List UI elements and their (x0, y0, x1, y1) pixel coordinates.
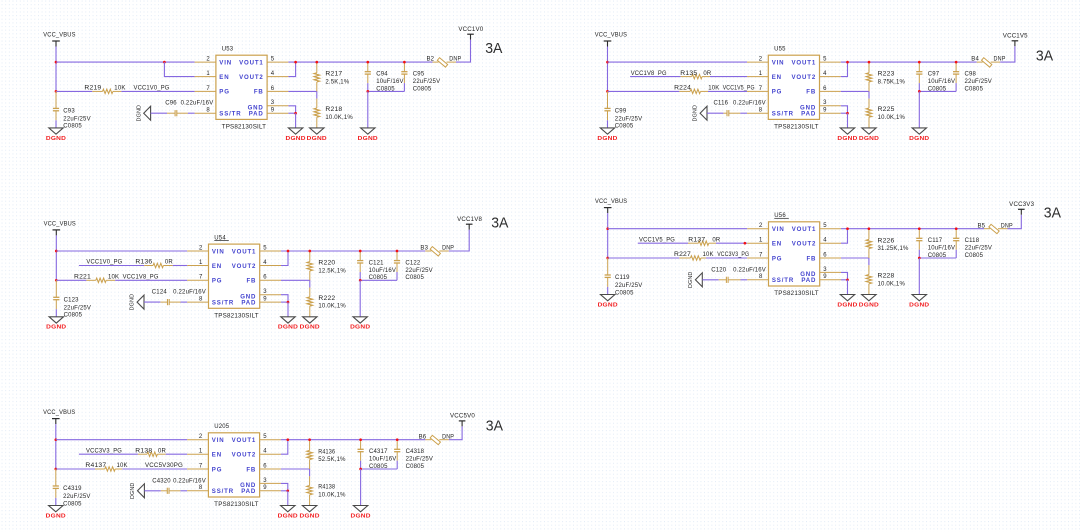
ground DGND input (49, 506, 63, 512)
wire output to flag (456, 40, 471, 63)
svg-text:C0805: C0805 (615, 290, 634, 296)
svg-text:22uF/25V: 22uF/25V (615, 116, 642, 122)
svg-text:VOUT2: VOUT2 (232, 452, 257, 459)
svg-text:10uF/16V: 10uF/16V (928, 246, 955, 252)
junction VBUS/PG (55, 279, 58, 282)
svg-text:C0805: C0805 (615, 124, 634, 130)
svg-text:7: 7 (759, 86, 763, 92)
wire cap to ground (55, 120, 57, 128)
junction VBUS/VIN (54, 438, 57, 441)
svg-text:0.22uF/16V: 0.22uF/16V (173, 290, 206, 296)
svg-text:0.22uF/16V: 0.22uF/16V (181, 101, 214, 107)
svg-text:FB: FB (246, 278, 256, 285)
svg-text:8.75K,1%: 8.75K,1% (878, 79, 906, 85)
svg-text:R223: R223 (878, 72, 896, 78)
svg-text:22uF/25V: 22uF/25V (405, 268, 432, 274)
svg-text:2.5K,1%: 2.5K,1% (325, 79, 349, 85)
svg-text:U205: U205 (214, 424, 230, 430)
regulator IC U205 TPS82130SILT (187, 424, 281, 508)
svg-text:R4138: R4138 (318, 485, 335, 491)
capacitor C94 10uF/16V (365, 62, 404, 92)
svg-text:2: 2 (199, 434, 203, 440)
wire GND/PAD pins (288, 106, 295, 113)
power flag VCC_VBUS (bottom-left) (43, 410, 75, 424)
svg-text:EN: EN (212, 452, 222, 459)
svg-text:C4318: C4318 (406, 449, 425, 455)
svg-text:VCC5V0: VCC5V0 (450, 414, 475, 420)
regulator IC U56 TPS82130SILT (747, 213, 841, 297)
svg-text:DGND: DGND (837, 302, 857, 308)
svg-text:C4319: C4319 (63, 486, 82, 492)
ground DGND soft-start (side) (130, 483, 144, 500)
wire PG from VBUS (608, 257, 680, 259)
svg-text:2: 2 (759, 223, 763, 229)
svg-text:10uF/16V: 10uF/16V (369, 457, 396, 463)
capacitor C98 22uF/25V (953, 62, 992, 92)
ferrite bead B6 DNP (419, 434, 455, 444)
svg-text:PAD: PAD (801, 277, 816, 284)
svg-text:VCC1V8_PG: VCC1V8_PG (123, 275, 159, 281)
svg-text:C0805: C0805 (965, 86, 984, 92)
resistor R226 31.25K,1% (866, 229, 909, 258)
wire cap ground (918, 91, 920, 128)
wire EN net stub (630, 76, 681, 78)
wire VIN bus (608, 61, 748, 63)
ground DGND output caps (353, 506, 367, 512)
junction VBUS/PG (606, 257, 609, 260)
regulator IC U54 TPS82130SILT (187, 235, 281, 319)
svg-text:DGND: DGND (286, 136, 306, 142)
resistor R137 0R (688, 237, 721, 245)
wire PG to pin (708, 90, 747, 92)
svg-text:VCC3V3_PG: VCC3V3_PG (86, 448, 122, 454)
wire VCC_VBUS vertical (55, 47, 57, 92)
svg-text:PAD: PAD (249, 111, 264, 118)
svg-text:6: 6 (263, 463, 267, 469)
svg-text:7: 7 (759, 252, 763, 258)
resistor R222 10.0K,1% (307, 288, 346, 317)
svg-text:VCC_VBUS: VCC_VBUS (43, 33, 75, 39)
wire EN branch (164, 62, 194, 77)
power flag VCC3V3 (1009, 202, 1034, 215)
svg-text:9: 9 (823, 274, 827, 280)
svg-text:VCC_VBUS: VCC_VBUS (44, 221, 76, 227)
svg-text:VCC_VBUS: VCC_VBUS (43, 410, 75, 416)
svg-text:22uF/25V: 22uF/25V (406, 457, 433, 463)
svg-text:SS/TR: SS/TR (212, 299, 234, 306)
ferrite bead B4 DNP (971, 57, 1005, 67)
junction divider top (308, 438, 311, 441)
wire SS/TR ground (702, 279, 718, 281)
svg-text:SS/TR: SS/TR (772, 277, 794, 284)
wire PG from VBUS (56, 279, 86, 281)
wire SS/TR to pin (180, 490, 187, 492)
junction divider top (868, 61, 871, 64)
svg-text:DGND: DGND (693, 105, 699, 122)
junction caps bottom (366, 90, 369, 93)
svg-text:3A: 3A (1036, 47, 1053, 64)
capacitor C119 22uF/25V (605, 258, 643, 296)
wire PG from VBUS (608, 90, 680, 92)
svg-text:DGND: DGND (278, 325, 298, 331)
ground DGND divider (862, 295, 876, 301)
svg-text:DGND: DGND (688, 272, 694, 289)
ground DGND input (600, 128, 614, 134)
svg-text:DGND: DGND (46, 513, 66, 519)
wire output to flag (449, 230, 469, 251)
power flag VCC1V5 (1003, 33, 1028, 46)
wire output caps bottom (918, 250, 920, 258)
svg-text:8: 8 (759, 274, 763, 280)
ground DGND soft-start (side) (693, 105, 707, 122)
svg-text:VCC3V3: VCC3V3 (1009, 202, 1034, 208)
ground DGND pad (288, 128, 302, 134)
svg-text:9: 9 (823, 108, 827, 114)
svg-text:DGND: DGND (837, 136, 857, 142)
svg-text:R4136: R4136 (318, 449, 335, 455)
junction cap C95 top (403, 61, 406, 64)
svg-text:0.22uF/16V: 0.22uF/16V (173, 478, 206, 484)
svg-text:SS/TR: SS/TR (219, 111, 241, 118)
svg-text:VOUT1: VOUT1 (232, 437, 257, 444)
svg-text:C97: C97 (928, 72, 940, 78)
svg-text:4: 4 (263, 449, 267, 455)
wire EN to pin (710, 76, 747, 78)
svg-text:PG: PG (219, 89, 230, 96)
capacitor C116 0.22uF/16V (714, 101, 766, 117)
capacitor C120 0.22uF/16V (711, 267, 766, 283)
svg-text:FB: FB (246, 466, 256, 473)
svg-text:1: 1 (759, 71, 763, 77)
svg-text:22uF/25V: 22uF/25V (615, 283, 642, 289)
svg-text:VOUT1: VOUT1 (792, 59, 817, 66)
svg-text:VCC1V0_PG: VCC1V0_PG (86, 260, 122, 266)
svg-text:FB: FB (254, 89, 264, 96)
svg-text:C124: C124 (152, 290, 168, 296)
svg-text:0R: 0R (165, 260, 174, 266)
svg-text:DGND: DGND (300, 325, 320, 331)
svg-text:5: 5 (823, 57, 827, 63)
svg-text:U55: U55 (774, 47, 786, 53)
junction cap C118 top (955, 227, 958, 230)
junction PAD (286, 489, 289, 492)
ferrite bead B5 DNP (978, 223, 1013, 233)
svg-text:5: 5 (263, 434, 267, 440)
svg-text:10.0K,1%: 10.0K,1% (878, 281, 906, 287)
svg-text:VCC1V5_PG: VCC1V5_PG (639, 237, 675, 243)
wire EN net stub (79, 265, 144, 267)
capacitor C121 10uF/16V (357, 251, 396, 281)
svg-text:C93: C93 (63, 109, 75, 115)
svg-text:SS/TR: SS/TR (772, 111, 794, 118)
wire cap ground (359, 280, 361, 317)
capacitor C4320 0.22uF/16V (152, 478, 206, 494)
svg-text:SS/TR: SS/TR (212, 488, 234, 495)
svg-text:VOUT2: VOUT2 (792, 241, 817, 248)
ground DGND input (49, 128, 63, 134)
wire output caps bottom (367, 83, 369, 91)
svg-text:FB: FB (806, 89, 816, 96)
svg-text:R222: R222 (318, 296, 336, 302)
resistor R135 0R (680, 71, 712, 79)
svg-text:4: 4 (823, 238, 827, 244)
ground DGND pad (281, 317, 295, 323)
wire VIN bus (56, 250, 187, 252)
wire PG to pin (121, 90, 194, 92)
svg-text:DGND: DGND (909, 302, 929, 308)
wire PAD to ground (295, 113, 297, 128)
capacitor C123 22uF/25V (53, 280, 91, 318)
svg-text:9: 9 (271, 108, 275, 114)
resistor R224 10K (674, 86, 719, 94)
wire SS/TR ground (144, 490, 160, 492)
svg-text:7: 7 (199, 463, 203, 469)
svg-text:R218: R218 (325, 107, 343, 113)
svg-text:EN: EN (772, 74, 782, 81)
svg-text:VIN: VIN (772, 226, 785, 233)
svg-text:5: 5 (823, 223, 827, 229)
junction VBUS/PG (54, 468, 57, 471)
junction VOUT2 (286, 438, 289, 441)
ferrite bead B2 DNP (427, 57, 462, 67)
wire cap to ground (55, 498, 57, 506)
junction EN wire end (744, 242, 747, 245)
svg-text:VCC_VBUS: VCC_VBUS (595, 33, 627, 39)
wire VCC_VBUS vertical (607, 213, 609, 258)
junction caps bottom (359, 279, 362, 282)
ground DGND soft-start (side) (136, 105, 150, 122)
svg-text:EN: EN (772, 241, 782, 248)
wire VIN bus (56, 61, 195, 63)
svg-text:DGND: DGND (351, 513, 371, 519)
svg-text:R136: R136 (135, 260, 153, 266)
resistor R4137 10K (85, 463, 127, 471)
svg-text:6: 6 (823, 252, 827, 258)
wire PG to pin (706, 257, 747, 259)
svg-text:7: 7 (199, 275, 203, 281)
svg-text:DGND: DGND (136, 105, 142, 122)
regulator IC U55 TPS82130SILT (747, 47, 841, 131)
svg-text:10K: 10K (114, 86, 125, 92)
wire FB (841, 91, 869, 98)
wire VOUT2 join (281, 440, 288, 455)
svg-text:DGND: DGND (859, 136, 879, 142)
wire GND/PAD pins (841, 272, 848, 279)
junction PAD (287, 301, 290, 304)
svg-text:10.0K,1%: 10.0K,1% (325, 115, 353, 121)
svg-text:R217: R217 (325, 72, 343, 78)
resistor R225 10.0K,1% (866, 99, 905, 128)
svg-text:C0805: C0805 (405, 275, 424, 281)
svg-text:DGND: DGND (46, 136, 66, 142)
svg-text:B5: B5 (978, 223, 986, 229)
wire PG to pin (122, 468, 187, 470)
svg-text:C4317: C4317 (369, 449, 388, 455)
svg-text:22uF/25V: 22uF/25V (965, 246, 992, 252)
wire SS/TR to pin (740, 112, 747, 114)
svg-text:C0805: C0805 (965, 253, 984, 259)
svg-text:VCC1V8_PG: VCC1V8_PG (631, 71, 667, 77)
svg-text:FB: FB (806, 255, 816, 262)
svg-text:VCC1V0: VCC1V0 (458, 27, 483, 33)
svg-text:22uF/25V: 22uF/25V (63, 116, 90, 122)
svg-text:DGND: DGND (597, 136, 617, 142)
svg-text:10K: 10K (108, 275, 119, 281)
svg-text:PG: PG (212, 278, 223, 285)
wire VOUT2 join (841, 229, 848, 244)
junction cap C94 top (366, 61, 369, 64)
wire GND/PAD pins (841, 106, 848, 113)
svg-text:0.22uF/16V: 0.22uF/16V (733, 101, 766, 107)
svg-text:PAD: PAD (241, 300, 256, 307)
svg-text:R224: R224 (674, 86, 692, 92)
svg-text:10.0K,1%: 10.0K,1% (318, 304, 346, 310)
resistor R220 12.5K,1% (307, 251, 346, 280)
ferrite bead B3 DNP (420, 246, 454, 256)
junction cap C117 top (918, 227, 921, 230)
svg-text:C0805: C0805 (63, 501, 82, 507)
junction VOUT2 (294, 61, 297, 64)
svg-text:3: 3 (263, 478, 267, 484)
ground DGND input (601, 295, 615, 301)
svg-text:DGND: DGND (350, 325, 370, 331)
wire PG from VBUS (56, 90, 92, 92)
svg-text:R137: R137 (688, 237, 706, 243)
wire FB (288, 91, 316, 98)
wire output to flag (449, 426, 462, 439)
wire PG from VBUS (56, 468, 95, 470)
svg-text:3: 3 (271, 100, 275, 106)
power flag VCC_VBUS (mid-left) (44, 221, 76, 235)
power flag VCC1V8 (457, 217, 482, 230)
resistor R218 10.0K,1% (314, 99, 353, 128)
wire FB (281, 280, 310, 287)
svg-text:52.5K,1%: 52.5K,1% (318, 457, 346, 463)
junction cap C97 top (918, 61, 921, 64)
wire GND/PAD pins (281, 483, 288, 490)
junction VBUS/VIN (606, 61, 609, 64)
ground DGND output caps (361, 128, 375, 134)
svg-text:C4320: C4320 (152, 478, 171, 484)
svg-text:12.5K,1%: 12.5K,1% (318, 268, 346, 274)
svg-text:B6: B6 (419, 434, 427, 440)
wire output to flag (1000, 46, 1015, 62)
svg-text:C0805: C0805 (63, 124, 82, 130)
svg-text:1: 1 (206, 71, 210, 77)
svg-text:DGND: DGND (130, 294, 136, 311)
wire output caps bottom (918, 83, 920, 91)
capacitor C95 22uF/25V (401, 62, 440, 92)
svg-text:R220: R220 (318, 261, 336, 267)
wire VOUT2 join (288, 62, 295, 77)
svg-text:10.0K,1%: 10.0K,1% (318, 492, 346, 498)
svg-text:C123: C123 (64, 297, 80, 303)
resistor R4138 10.0K,1% (307, 476, 346, 505)
junction VBUS/VIN (606, 227, 609, 230)
svg-text:4: 4 (263, 260, 267, 266)
power flag VCC_VBUS (mid-right) (595, 199, 627, 213)
wire EN net stub (79, 453, 138, 455)
svg-text:C116: C116 (714, 101, 729, 107)
capacitor C4319 22uF/25V (53, 469, 91, 507)
junction PAD (846, 278, 849, 281)
svg-text:10K: 10K (117, 463, 128, 469)
resistor R217 2.5K,1% (314, 62, 350, 91)
junction VOUT2 (846, 61, 849, 64)
svg-text:DGND: DGND (300, 513, 320, 519)
capacitor C122 22uF/25V (394, 251, 433, 281)
svg-text:1: 1 (199, 260, 203, 266)
svg-text:VIN: VIN (219, 59, 232, 66)
resistor R136 0R (135, 260, 173, 268)
svg-text:PG: PG (212, 466, 223, 473)
junction VBUS/PG (606, 90, 609, 93)
svg-text:EN: EN (212, 263, 222, 270)
svg-text:C99: C99 (615, 109, 627, 115)
capacitor C124 0.22uF/16V (152, 290, 206, 306)
svg-text:R227: R227 (674, 252, 692, 258)
ground DGND divider (310, 128, 324, 134)
wire VOUT1 bus (841, 61, 977, 63)
wire GND/PAD pins (281, 295, 288, 302)
svg-text:DGND: DGND (598, 302, 618, 308)
svg-text:C118: C118 (965, 238, 980, 244)
svg-text:2: 2 (206, 57, 210, 63)
ground DGND divider (302, 506, 316, 512)
svg-text:VIN: VIN (772, 59, 785, 66)
wire cap ground (360, 469, 362, 506)
ground DGND pad (840, 128, 854, 134)
wire cap ground (367, 91, 369, 128)
power flag VCC_VBUS (top-left) (43, 33, 75, 47)
svg-text:3A: 3A (486, 417, 503, 434)
svg-text:10uF/16V: 10uF/16V (369, 268, 396, 274)
junction divider top (308, 250, 311, 253)
junction cap C122 top (396, 250, 399, 253)
svg-text:1: 1 (759, 238, 763, 244)
svg-text:VOUT1: VOUT1 (792, 226, 817, 233)
wire cap to ground (607, 287, 609, 295)
wire VOUT1 bus (281, 439, 425, 441)
svg-text:B3: B3 (420, 246, 428, 252)
svg-text:0R: 0R (158, 448, 167, 454)
svg-text:10uF/16V: 10uF/16V (376, 79, 403, 85)
svg-text:VCC1V0_PG: VCC1V0_PG (134, 86, 170, 92)
svg-text:TPS82130SILT: TPS82130SILT (222, 125, 267, 131)
svg-text:3: 3 (263, 289, 267, 295)
regulator IC U53 TPS82130SILT (195, 47, 289, 131)
wire VIN bus (608, 228, 748, 230)
power flag VCC_VBUS (top-right) (595, 33, 627, 47)
svg-text:DGND: DGND (278, 513, 298, 519)
svg-text:VOUT1: VOUT1 (239, 59, 264, 66)
svg-text:DGND: DGND (358, 136, 378, 142)
svg-text:PAD: PAD (801, 111, 816, 118)
ground DGND output caps (912, 295, 926, 301)
wire VOUT2 join (841, 62, 848, 77)
junction VOUT2 (846, 227, 849, 230)
svg-text:0.22uF/16V: 0.22uF/16V (733, 267, 766, 273)
wire VCC_VBUS vertical (55, 235, 57, 280)
svg-text:6: 6 (263, 275, 267, 281)
svg-text:22uF/25V: 22uF/25V (63, 494, 90, 500)
svg-text:DGND: DGND (130, 483, 136, 500)
svg-text:R226: R226 (878, 238, 896, 244)
svg-text:2: 2 (199, 245, 203, 251)
capacitor C118 22uF/25V (953, 229, 992, 259)
wire SS/TR to pin (188, 112, 195, 114)
ground DGND pad (840, 295, 854, 301)
